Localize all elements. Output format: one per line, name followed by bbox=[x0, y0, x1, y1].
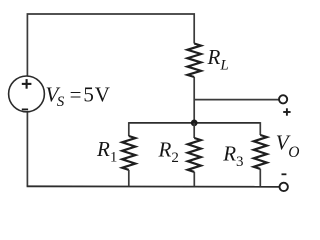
wire bottom rail bbox=[27, 185, 280, 188]
minus sign at output terminal bbox=[282, 173, 287, 175]
wire RL bottom lead down to junction bbox=[193, 77, 195, 123]
wire R2 bottom lead bbox=[193, 172, 195, 186]
minus sign inside source bbox=[22, 108, 28, 110]
wire output tap to + terminal bbox=[194, 99, 279, 101]
wire source bottom lead bbox=[26, 112, 28, 186]
wire top loop: source top lead, top wire, RL top lead bbox=[27, 14, 194, 76]
resistor RL zigzag bbox=[187, 44, 201, 78]
svg-text:V: V bbox=[95, 83, 110, 107]
wire R1 bottom lead bbox=[128, 170, 130, 186]
plus sign at output terminal bbox=[283, 108, 290, 115]
junction node dot bbox=[191, 120, 198, 127]
voltage source VS circle bbox=[9, 76, 45, 112]
terminal + (open circle) bbox=[279, 95, 287, 103]
plus sign inside source bbox=[22, 79, 32, 89]
wire R1 top lead bbox=[128, 122, 130, 136]
wire R3 top lead bbox=[259, 122, 261, 135]
svg-text:O: O bbox=[288, 144, 299, 161]
svg-text:S: S bbox=[57, 94, 65, 110]
wire parallel-bank top rail bbox=[129, 122, 260, 124]
resistor R3 zigzag bbox=[254, 135, 267, 169]
wire R2 top lead bbox=[193, 123, 195, 138]
terminal - (open circle) bbox=[280, 183, 288, 191]
svg-text:5: 5 bbox=[83, 83, 94, 107]
wire R3 bottom lead bbox=[259, 169, 261, 186]
svg-text:=: = bbox=[70, 83, 82, 107]
resistor R1 zigzag bbox=[122, 136, 135, 170]
resistor R2 zigzag bbox=[188, 138, 201, 172]
